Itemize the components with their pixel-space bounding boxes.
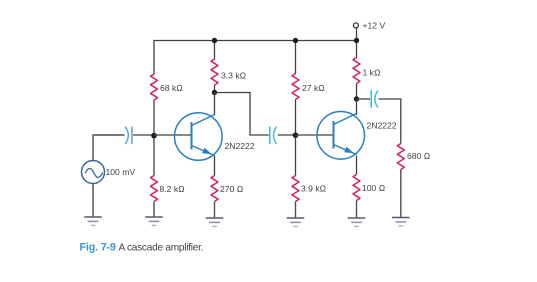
wire Q2 base node to 3.9k — [295, 135, 297, 176]
svg-text:270 Ω: 270 Ω — [220, 184, 244, 194]
ground under 100 — [348, 218, 366, 226]
svg-text:680 Ω: 680 Ω — [407, 151, 431, 161]
wire rail to 27k top — [295, 41, 297, 75]
transistor Q1 2N2222 — [175, 113, 223, 161]
wire Q1 emitter to 270 — [214, 156, 216, 176]
resistor 68 kOhm — [151, 74, 158, 100]
resistor 3.9 kOhm — [292, 176, 299, 202]
wire Q2 emitter to 100 — [356, 156, 358, 175]
wire input node to 8.2k — [153, 135, 155, 176]
wire collector node to output cap — [357, 98, 371, 100]
label 270 Ohm — [220, 184, 244, 194]
label Q2 2N2222 — [367, 121, 397, 131]
ground under 3.9k — [287, 218, 305, 226]
wire input cap to input node — [133, 134, 154, 136]
wire input node to Q1 base — [154, 134, 192, 136]
resistor 27 kOhm — [292, 74, 299, 100]
capacitor output coupling — [371, 90, 378, 108]
wire Q2 base node to Q2 base — [296, 134, 334, 136]
wire source top to input cap — [93, 135, 125, 161]
transistor Q2 2N2222 — [317, 112, 365, 160]
wire 68k bottom to input node — [153, 100, 155, 135]
wire rail to 1k top — [356, 41, 358, 59]
wire 3.9k to ground — [295, 202, 297, 218]
ground under 680 — [392, 218, 410, 226]
resistor 100 Ohm — [353, 175, 360, 201]
resistor 680 Ohm — [397, 144, 404, 170]
wire interstage cap to Q2 base node — [278, 134, 296, 136]
node rail-supply junction — [354, 38, 359, 43]
wire output branch: cap to 680 — [379, 99, 401, 144]
node input junction — [151, 133, 157, 139]
svg-text:1 kΩ: 1 kΩ — [363, 68, 381, 78]
svg-text:3.9 kΩ: 3.9 kΩ — [301, 184, 327, 194]
svg-text:2N2222: 2N2222 — [367, 121, 397, 131]
wire interstage tap: node right then down to coupling cap — [215, 93, 269, 136]
capacitor interstage coupling — [270, 127, 277, 145]
source AC 100 mV — [82, 161, 105, 184]
resistor 3.3 kOhm — [211, 59, 218, 85]
svg-text:100 Ω: 100 Ω — [362, 183, 386, 193]
label 8.2 kOhm — [160, 184, 186, 194]
wire 270 to ground — [214, 202, 216, 218]
node Q2 collector junction — [354, 96, 359, 101]
svg-text:Fig. 7-9: Fig. 7-9 — [80, 242, 116, 254]
label Q1 2N2222 — [225, 141, 255, 151]
svg-text:A cascade amplifier.: A cascade amplifier. — [119, 243, 204, 254]
wire collector node down to Q2 — [356, 99, 358, 115]
wire 680 to ground — [400, 170, 402, 218]
wire 100 to ground — [356, 201, 358, 218]
svg-text:27 kΩ: 27 kΩ — [302, 83, 325, 93]
svg-text:8.2 kΩ: 8.2 kΩ — [160, 184, 186, 194]
node rail-27k junction — [293, 38, 298, 43]
label 100 Ohm — [362, 183, 386, 193]
resistor 8.2 kOhm — [151, 176, 158, 202]
wire 8.2k to ground — [153, 202, 155, 217]
wire top supply rail — [154, 41, 357, 75]
ground under source — [84, 217, 102, 225]
capacitor input coupling — [125, 127, 132, 145]
caption text — [119, 243, 204, 254]
label 100 mV — [106, 167, 136, 177]
label +12 V — [363, 21, 386, 31]
wire collector node down to Q1 collector — [214, 93, 216, 116]
svg-text:100 mV: 100 mV — [106, 167, 136, 177]
node 3.3k-collector junction — [212, 90, 217, 95]
resistor 270 Ohm — [211, 176, 218, 202]
node Q2 base junction — [293, 132, 299, 138]
wire 3.3k bottom to collector node — [214, 85, 216, 93]
svg-text:2N2222: 2N2222 — [225, 141, 255, 151]
+12 V supply terminal — [353, 23, 358, 41]
wire source bottom to ground — [92, 184, 94, 217]
wire 27k bottom to Q2 base node — [295, 100, 297, 136]
wire rail to 3.3k top — [214, 41, 216, 60]
node rail-3.3k junction — [212, 38, 217, 43]
ground under 270 — [206, 218, 224, 226]
svg-text:68 kΩ: 68 kΩ — [160, 83, 183, 93]
ground under 8.2k — [145, 217, 163, 225]
svg-text:+12 V: +12 V — [363, 21, 386, 31]
svg-text:3.3 kΩ: 3.3 kΩ — [221, 71, 247, 81]
label 680 Ohm — [407, 151, 431, 161]
label 1 kOhm — [363, 68, 381, 78]
label 3.9 kOhm — [301, 184, 327, 194]
label 3.3 kOhm — [221, 71, 247, 81]
label 27 kOhm — [302, 83, 325, 93]
resistor 1 kOhm — [353, 58, 360, 84]
caption Fig. 7-9 — [80, 242, 116, 254]
label 68 kOhm — [160, 83, 183, 93]
wire 1k bottom to Q2 collector node — [356, 84, 358, 100]
